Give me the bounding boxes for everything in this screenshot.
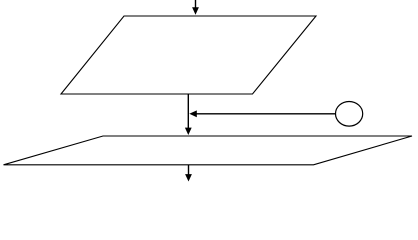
wire: bottom exit flow line (185, 165, 192, 182)
node: connector circle (336, 102, 363, 127)
wire: horizontal line from connector circle with left arrowhead (189, 110, 335, 117)
parallelogram: wide flat input/output shape (bottom) (4, 136, 413, 165)
parallelogram: input/output shape (top) (61, 16, 316, 94)
wire: vertical flow line from top parallelogram to lower shape (185, 94, 192, 135)
wire: top entry flow line (192, 0, 199, 15)
